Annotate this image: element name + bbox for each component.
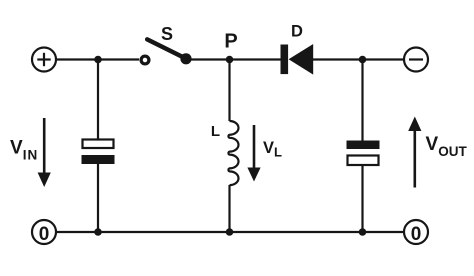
node at inductor bottom rail [226, 228, 234, 236]
wire output branch lower [361, 165, 363, 232]
switch S contact circle [141, 56, 149, 64]
terminal - (output negative) [404, 48, 428, 72]
svg-text:L: L [211, 123, 220, 140]
arrow V_IN [38, 118, 51, 187]
wire input branch upper [97, 60, 99, 139]
switch S lever [147, 39, 186, 58]
wire inductor branch lower [228, 185, 230, 232]
inductor L coil [228, 121, 238, 185]
switch S pivot dot [180, 53, 191, 64]
wire top rail left: + terminal to switch contact [57, 58, 139, 60]
svg-text:S: S [161, 24, 173, 44]
arrow V_OUT [408, 117, 421, 188]
svg-text:0: 0 [411, 224, 422, 245]
terminal 0 (output common) [404, 220, 428, 245]
svg-text:0: 0 [39, 224, 50, 245]
wire top rail middle: switch to diode [186, 58, 281, 60]
node at output cap bottom rail [359, 228, 367, 236]
node at input cap top rail [94, 56, 102, 64]
wire input branch lower [97, 164, 99, 233]
arrow V_L [247, 125, 260, 182]
node at input cap bottom rail [94, 228, 102, 236]
node P junction dot [226, 56, 234, 64]
wire bottom rail [57, 231, 403, 233]
node at output cap top rail [359, 56, 367, 64]
capacitor C-out [347, 141, 380, 166]
terminal 0 (input common) [32, 220, 56, 245]
svg-text:P: P [224, 31, 237, 53]
svg-text:D: D [291, 23, 303, 41]
terminal + (input positive) [32, 48, 56, 72]
wire inductor branch upper [228, 60, 230, 122]
diode D [281, 44, 314, 75]
wire output branch upper [361, 60, 363, 141]
capacitor C-in [82, 140, 115, 165]
wire top rail right: diode to - terminal [313, 58, 403, 60]
